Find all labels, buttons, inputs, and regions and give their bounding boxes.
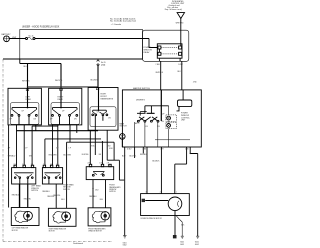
svg-text:5 P: 5 P — [22, 164, 24, 166]
svg-text:SWITCH: SWITCH — [31, 190, 38, 192]
svg-text:G401: G401 — [180, 242, 184, 244]
svg-text:3 P: 3 P — [56, 147, 58, 149]
svg-text:G402: G402 — [123, 245, 127, 247]
svg-text:RED/BLU: RED/BLU — [12, 194, 20, 196]
svg-text:BLU/YEL: BLU/YEL — [129, 156, 136, 158]
svg-text:5 P: 5 P — [50, 164, 52, 166]
svg-text:WINDOW MOTOR: WINDOW MOTOR — [88, 231, 102, 233]
svg-text:RED/YEL: RED/YEL — [24, 198, 31, 200]
svg-text:+ 1 Canada: + 1 Canada — [111, 24, 122, 26]
svg-text:UNDER - HOOD FUSE/RELAY BOX: UNDER - HOOD FUSE/RELAY BOX — [22, 26, 60, 29]
svg-text:MOTOR: MOTOR — [49, 231, 56, 233]
svg-text:WHT/BLK: WHT/BLK — [22, 81, 30, 83]
svg-text:1 P: 1 P — [31, 164, 33, 166]
svg-text:7 P: 7 P — [43, 164, 45, 166]
svg-text:RELAY: RELAY — [144, 51, 151, 54]
svg-text:2: 2 — [160, 192, 161, 194]
svg-text:2 P: 2 P — [14, 164, 16, 166]
svg-text:Dashboard: Dashboard — [73, 243, 83, 245]
svg-text:WHT/BLK: WHT/BLK — [156, 72, 164, 74]
svg-text:4 P: 4 P — [8, 147, 10, 149]
svg-text:DRIVER'S WINDOW MOTOR: DRIVER'S WINDOW MOTOR — [141, 218, 163, 220]
svg-text:BLU/GRN: BLU/GRN — [63, 154, 71, 156]
svg-text:MOTOR: MOTOR — [12, 230, 19, 232]
svg-text:1 BU: 1 BU — [108, 164, 111, 166]
svg-text:1 P: 1 P — [69, 147, 71, 149]
svg-text:G401: G401 — [195, 242, 199, 244]
svg-text:WINDOW: WINDOW — [109, 189, 116, 191]
svg-text:AUTO: AUTO — [135, 122, 140, 125]
svg-text:1 P: 1 P — [100, 163, 102, 165]
svg-text:SWITCH: SWITCH — [109, 191, 116, 193]
svg-text:WHT/YEL: WHT/YEL — [55, 80, 63, 82]
svg-text:1 P: 1 P — [56, 164, 58, 166]
svg-text:1 WHT: 1 WHT — [178, 64, 183, 66]
svg-text:DRIVER'S: DRIVER'S — [136, 100, 146, 102]
svg-text:No. 15 (30 A): (Canada) mod.: No. 15 (30 A): (Canada) mod. — [110, 20, 137, 23]
svg-text:REAR: REAR — [58, 98, 64, 101]
svg-text:BATTERY: BATTERY — [2, 33, 12, 36]
svg-text:BLU/BLK: BLU/BLK — [91, 80, 99, 82]
svg-text:FRONT: FRONT — [109, 185, 115, 187]
svg-text:RED/BLU: RED/BLU — [140, 154, 148, 156]
svg-text:2 BU: 2 BU — [95, 189, 98, 191]
svg-text:PASSENGER'S: PASSENGER'S — [101, 97, 114, 100]
svg-text:No. 41: No. 41 — [29, 35, 34, 37]
svg-text:RED/GRN: RED/GRN — [49, 154, 58, 156]
svg-text:UP: UP — [97, 112, 99, 114]
svg-text:RED/YEL: RED/YEL — [47, 196, 54, 198]
svg-text:SWITCH: SWITCH — [63, 189, 70, 191]
svg-text:GRN/BLU: GRN/BLU — [8, 156, 16, 158]
svg-text:G402: G402 — [180, 244, 184, 246]
svg-text:MASTER SWITCH: MASTER SWITCH — [133, 87, 150, 90]
svg-text:2 P: 2 P — [88, 163, 90, 165]
svg-text:G401: G401 — [123, 242, 127, 244]
svg-text:WHT/RED: WHT/RED — [176, 22, 185, 24]
svg-text:4 P: 4 P — [107, 163, 109, 165]
svg-text:1 P: 1 P — [25, 147, 27, 149]
svg-text:SWITCH: SWITCH — [120, 126, 128, 128]
svg-text:G402: G402 — [195, 244, 199, 246]
svg-text:RED/BLU: RED/BLU — [89, 196, 97, 198]
svg-text:Rap - off timer circuit): Rap - off timer circuit) — [165, 8, 183, 11]
svg-text:RED/BLU: RED/BLU — [42, 191, 50, 193]
svg-text:BLK/YEL: BLK/YEL — [82, 154, 89, 156]
svg-text:REAR: REAR — [26, 98, 32, 101]
svg-text:(20A): (20A) — [101, 63, 106, 66]
svg-text:BLU/BLK: BLU/BLK — [152, 160, 160, 162]
